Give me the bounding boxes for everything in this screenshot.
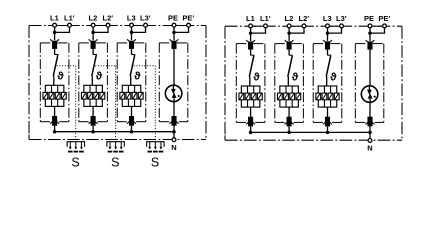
net label L3 (127, 13, 136, 22)
spark gap (gas discharge) N-PE, U4 (165, 85, 182, 102)
svg-text:ϑ: ϑ (253, 71, 260, 83)
terminal PE (368, 24, 372, 28)
wire branch junction to L1&#8242; terminal (251, 27, 266, 33)
terminal L1 (249, 24, 253, 28)
net label L2&#8242; (299, 14, 310, 23)
junction dot PE (172, 31, 176, 35)
thermal disconnect device F2 (upper) (285, 40, 294, 50)
svg-text:L1′: L1′ (260, 14, 271, 23)
wire disconnector to switch (92, 49, 94, 55)
wire switch to arrester block (326, 76, 328, 86)
wire bus to N terminal (173, 132, 175, 138)
enclosure border segment through terminals PE/PE&#8242; (370, 25, 385, 27)
net label L2 (89, 13, 98, 22)
net label L1 (246, 14, 255, 23)
junction dot on bus, channel L3 (326, 131, 330, 135)
net label N (171, 143, 176, 152)
enclosure border segment through terminals PE/PE&#8242; (174, 25, 189, 27)
label S2 (111, 155, 119, 169)
thermal dynamic switch contact, channel L2 (288, 55, 293, 76)
wire branch junction to L3&#8242; terminal (132, 26, 146, 32)
wire spark gap to lower disconnector (369, 101, 371, 117)
svg-text:L2′: L2′ (103, 13, 114, 22)
PE bus wire (251, 131, 370, 133)
enclosure border segment through terminals L2/L2&#8242; (289, 25, 304, 27)
terminal L2&#8242; (106, 23, 110, 27)
wire bus to N terminal (369, 132, 371, 138)
svg-text:ϑ: ϑ (292, 71, 299, 83)
net label PE&#8242; (182, 13, 194, 22)
svg-text:L1: L1 (50, 13, 59, 22)
wire branch junction to L3&#8242; terminal (328, 27, 342, 33)
thermal dynamic switch contact, channel L3 (326, 55, 331, 76)
surge arrester multi-gap block, channel L3 (120, 85, 143, 106)
wire L1 terminal down to disconnector (250, 27, 252, 41)
enclosure border segment through terminals L3/L3&#8242; (328, 25, 342, 27)
wire arrester block to lower disconnector (288, 107, 290, 117)
wire arrester block to lower disconnector (250, 107, 252, 117)
wire switch to arrester block (91, 76, 93, 86)
junction dot PE (368, 31, 372, 35)
enclosure border segment through terminals L2/L2&#8242; (93, 25, 108, 27)
wire disconnector to spark gap (173, 49, 175, 86)
thermal dynamic switch contact, channel L1 (249, 55, 254, 76)
junction dot on bus, channel L1 (53, 130, 57, 134)
terminal PE&#8242; (187, 23, 191, 27)
svg-text:PE: PE (168, 13, 178, 22)
terminal L2&#8242; (302, 24, 306, 28)
junction dot on bus, channel L2 (91, 130, 95, 134)
wire arrester block to lower disconnector (54, 106, 56, 116)
terminal N (left diagram) (172, 138, 176, 142)
wire branch junction to PE&#8242; terminal (370, 27, 385, 33)
thermal symbol (theta) channel L3 (134, 71, 141, 83)
surge arrester multi-gap block, channel L2 (277, 86, 300, 107)
svg-text:L1: L1 (246, 14, 255, 23)
remote signalling contact S2 (107, 142, 124, 153)
plug-in base contact (lower), channel L1 (246, 117, 255, 127)
linkage dotted line, switch L2 to signal contact S2 (95, 66, 115, 141)
thermal disconnect device F1 (upper) (50, 39, 59, 49)
svg-text:ϑ: ϑ (134, 71, 141, 83)
surge arrester multi-gap block, channel L1 (43, 85, 66, 106)
wire disconnector to switch (250, 50, 252, 56)
plug-in base contact (lower), channel L1 (50, 116, 59, 126)
wire lower disconnector to PE bus (173, 126, 175, 132)
junction dot L1 (53, 31, 57, 35)
wire L1 terminal down to disconnector (54, 26, 56, 40)
svg-text:L2: L2 (285, 14, 294, 23)
thermal dynamic switch contact, channel L2 (92, 55, 97, 76)
enclosure border segment through terminals L1/L1&#8242; (55, 25, 70, 27)
net label N (367, 144, 372, 153)
wire lower disconnector to PE bus (327, 126, 329, 132)
svg-text:ϑ: ϑ (96, 71, 103, 83)
junction dot on bus, channel PE (172, 130, 176, 134)
thermal disconnect device F2 (upper) (89, 39, 98, 49)
wire lower disconnector to PE bus (92, 126, 94, 132)
device enclosure boundary (right diagram) (225, 26, 402, 140)
svg-text:ϑ: ϑ (57, 71, 64, 83)
junction dot on bus, channel L1 (249, 131, 253, 135)
junction dot L1 (249, 31, 253, 35)
wire PE terminal down to disconnector (173, 26, 175, 40)
thermal disconnect device F3 (upper) (127, 39, 136, 49)
svg-text:L2: L2 (89, 13, 98, 22)
linkage dotted line, switch L3 to signal contact S3 (134, 66, 156, 141)
wire disconnector to switch (131, 49, 133, 55)
plug-in module boundary box, channel L1 (236, 44, 265, 123)
net label L1 (50, 13, 59, 22)
label S1 (71, 155, 79, 169)
net label L1&#8242; (260, 14, 271, 23)
svg-text:N: N (171, 143, 176, 152)
net label L3 (323, 14, 332, 23)
terminal L2 (91, 23, 95, 27)
net label L3&#8242; (336, 14, 347, 23)
surge arrester multi-gap block, channel L2 (81, 85, 104, 106)
terminal L1&#8242; (68, 23, 72, 27)
thermal disconnect device F1 (upper) (246, 40, 255, 50)
terminal PE&#8242; (383, 24, 387, 28)
wire disconnector to switch (54, 49, 56, 55)
spark gap (gas discharge) N-PE, U4 (361, 86, 378, 103)
thermal dynamic switch contact, channel L1 (53, 55, 58, 76)
wire branch junction to L2&#8242; terminal (289, 27, 304, 33)
wire disconnector to switch (327, 50, 329, 56)
junction dot L2 (287, 31, 291, 35)
thermal disconnect device F4 (upper) (170, 39, 179, 49)
plug-in module boundary box, channel L2 (275, 44, 304, 123)
wire lower disconnector to PE bus (131, 126, 133, 132)
remote signalling contact S1 (67, 142, 84, 153)
wire switch to arrester block (130, 76, 132, 86)
thermal dynamic switch contact, channel L3 (130, 55, 135, 76)
terminal L3 (326, 24, 330, 28)
wire lower disconnector to PE bus (369, 126, 371, 132)
wire switch to arrester block (249, 76, 251, 86)
svg-text:PE′: PE′ (182, 13, 194, 22)
wire branch junction to PE&#8242; terminal (174, 26, 189, 32)
thermal disconnect device F4 (upper) (366, 40, 375, 50)
svg-text:S: S (111, 155, 119, 169)
plug-in base contact (lower), channel PE (170, 116, 179, 126)
junction dot on bus, channel PE (368, 131, 372, 135)
plug-in base contact (lower), channel L3 (323, 117, 332, 127)
wire branch junction to L2&#8242; terminal (93, 26, 108, 32)
wire lower disconnector to PE bus (250, 126, 252, 132)
linkage dotted line, switch L1 to signal contact S1 (57, 66, 76, 141)
wire branch junction to L1&#8242; terminal (55, 26, 70, 32)
remote signalling contact S3 (147, 142, 164, 153)
plug-in module boundary box, channel L2 (79, 43, 108, 122)
svg-text:PE′: PE′ (378, 14, 390, 23)
terminal L3 (130, 23, 134, 27)
enclosure border segment through terminals L1/L1&#8242; (251, 25, 266, 27)
terminal L3&#8242; (144, 23, 148, 27)
terminal PE (172, 23, 176, 27)
terminal L2 (287, 24, 291, 28)
junction dot L3 (326, 31, 330, 35)
net label L3&#8242; (140, 13, 151, 22)
svg-text:N: N (367, 144, 372, 153)
thermal symbol (theta) channel L1 (57, 71, 64, 83)
plug-in module boundary box, channel L3 (117, 43, 146, 122)
plug-in module boundary box, channel L3 (313, 44, 342, 123)
surge arrester multi-gap block, channel L1 (239, 86, 262, 107)
plug-in base contact (lower), channel L3 (127, 116, 136, 126)
wire L3 terminal down to disconnector (131, 26, 133, 40)
svg-text:L2′: L2′ (299, 14, 310, 23)
wire disconnector to switch (288, 50, 290, 56)
net label PE (168, 13, 178, 22)
svg-text:S: S (71, 155, 79, 169)
thermal disconnect device F3 (upper) (323, 40, 332, 50)
terminal L3&#8242; (340, 24, 344, 28)
svg-text:ϑ: ϑ (330, 71, 337, 83)
plug-in base contact (lower), channel PE (366, 117, 375, 127)
surge arrester multi-gap block, channel L3 (316, 86, 339, 107)
wire lower disconnector to PE bus (54, 126, 56, 132)
plug-in module boundary box, channel L1 (40, 43, 69, 122)
terminal L1&#8242; (264, 24, 268, 28)
wire switch to arrester block (287, 76, 289, 86)
svg-text:PE: PE (364, 14, 374, 23)
svg-text:L3: L3 (323, 14, 332, 23)
wire L2 terminal down to disconnector (288, 27, 290, 41)
enclosure border segment through terminals L3/L3&#8242; (132, 25, 146, 27)
plug-in module boundary box, channel PE (355, 44, 384, 123)
thermal symbol (theta) channel L2 (96, 71, 103, 83)
wire lower disconnector to PE bus (288, 126, 290, 132)
wire arrester block to lower disconnector (131, 106, 133, 116)
svg-text:L3: L3 (127, 13, 136, 22)
wire disconnector to spark gap (369, 50, 371, 87)
wire spark gap to lower disconnector (173, 101, 175, 117)
junction dot on bus, channel L3 (130, 130, 134, 134)
net label L2&#8242; (103, 13, 114, 22)
PE bus wire (55, 131, 174, 133)
terminal L1 (53, 23, 57, 27)
wire L2 terminal down to disconnector (92, 26, 94, 40)
thermal symbol (theta) channel L1 (253, 71, 260, 83)
thermal symbol (theta) channel L2 (292, 71, 299, 83)
plug-in module boundary box, channel PE (159, 43, 188, 122)
junction dot L3 (130, 31, 134, 35)
net label L1&#8242; (64, 13, 75, 22)
net label PE (364, 14, 374, 23)
net label L2 (285, 14, 294, 23)
wire PE terminal down to disconnector (369, 27, 371, 41)
junction dot on bus, channel L2 (287, 131, 291, 135)
terminal N (right diagram) (368, 139, 372, 143)
net label PE&#8242; (378, 14, 390, 23)
label S3 (151, 155, 159, 169)
device enclosure boundary (left diagram) (29, 26, 206, 140)
plug-in base contact (lower), channel L2 (285, 117, 294, 127)
junction dot L2 (91, 31, 95, 35)
plug-in base contact (lower), channel L2 (89, 116, 98, 126)
wire L3 terminal down to disconnector (327, 27, 329, 41)
svg-text:S: S (151, 155, 159, 169)
svg-text:L3′: L3′ (140, 13, 151, 22)
thermal symbol (theta) channel L3 (330, 71, 337, 83)
wire switch to arrester block (53, 76, 55, 86)
wire arrester block to lower disconnector (327, 107, 329, 117)
svg-text:L3′: L3′ (336, 14, 347, 23)
wire arrester block to lower disconnector (92, 106, 94, 116)
svg-text:L1′: L1′ (64, 13, 75, 22)
